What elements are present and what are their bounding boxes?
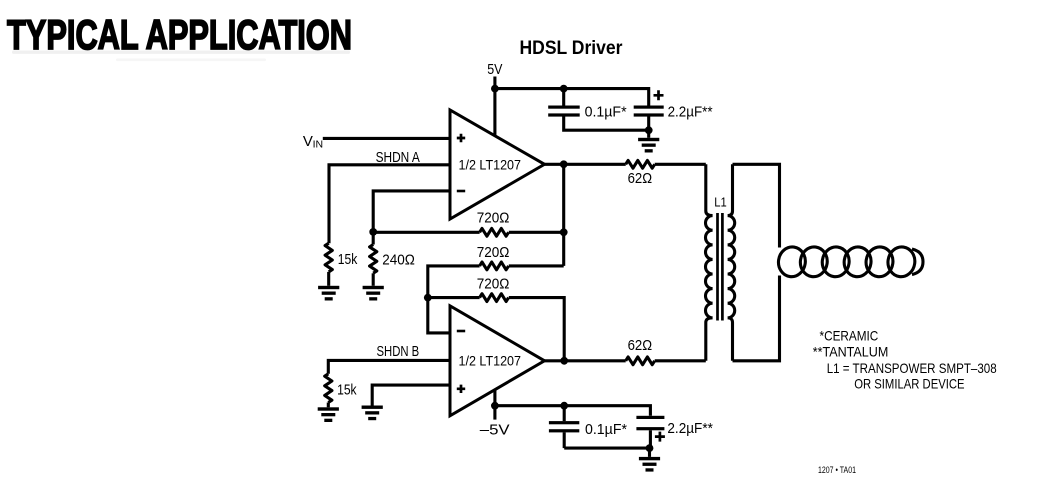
note L1 transpower [827, 360, 997, 376]
capacitor C4 2.2uF (bottom) [636, 416, 664, 448]
junction node 0.1uF top [560, 85, 568, 93]
faint print-through artifact under title [12, 51, 350, 62]
junction node bottom ground [646, 444, 654, 452]
svg-text:HDSL Driver: HDSL Driver [520, 37, 623, 59]
svg-text:0.1µF*: 0.1µF* [585, 104, 627, 121]
wire SHDN A [329, 165, 450, 243]
svg-text:V: V [303, 133, 313, 150]
polarity plus C2 [654, 90, 664, 100]
wire bottom cap rail [564, 447, 649, 450]
wire +5V rail [495, 89, 649, 106]
label SHDN A [376, 149, 420, 166]
wire U1 - input feedback [373, 191, 450, 232]
junction node U2 supply [491, 402, 499, 410]
label 0.1uF* (bottom) [585, 421, 627, 438]
svg-text:5V: 5V [487, 61, 502, 78]
svg-text:1/2 LT1207: 1/2 LT1207 [459, 354, 522, 370]
ground R2 [318, 286, 339, 301]
ground R3 [363, 286, 384, 301]
twisted pair loops [777, 245, 923, 278]
wire row1 right [509, 231, 564, 234]
resistor R1 62ohm (top) [626, 160, 655, 168]
svg-text:–5V: –5V [480, 422, 510, 439]
svg-text:1/2 LT1207: 1/2 LT1207 [459, 157, 522, 173]
label 15k (top) [338, 251, 358, 268]
wire row1 left [373, 231, 479, 234]
junction node row3 left [424, 294, 432, 302]
label 62ohm (top) [628, 170, 653, 187]
svg-text:240Ω: 240Ω [382, 251, 415, 268]
transformer L1 secondary winding [728, 164, 735, 360]
note ceramic [820, 328, 879, 344]
heading HDSL Driver [520, 37, 623, 59]
label SHDN B [377, 343, 420, 360]
capacitor C3 0.1uF (bottom) [549, 406, 579, 448]
label 720ohm row3 [477, 276, 510, 293]
ground top caps [638, 130, 659, 152]
svg-text:720Ω: 720Ω [477, 244, 510, 261]
junction node 0.1uF bottom [560, 402, 568, 410]
svg-text:2.2µF**: 2.2µF** [668, 104, 713, 121]
resistor R4 720ohm (row1) [480, 228, 509, 236]
resistor R6 720ohm (row3) [480, 294, 509, 302]
wire R1 to transformer primary top [655, 163, 706, 166]
transformer L1 core [718, 213, 723, 321]
svg-text:L1 = TRANSPOWER SMPT–308: L1 = TRANSPOWER SMPT–308 [827, 360, 997, 376]
label VIN [303, 133, 323, 151]
wire U1 output to R 62ohm [545, 163, 626, 166]
svg-text:**TANTALUM: **TANTALUM [813, 344, 889, 360]
capacitor C2 2.2uF (top) [634, 106, 664, 131]
wire SHDN B [328, 360, 450, 373]
label 240ohm [382, 251, 415, 268]
label 0.1uF* (top) [585, 104, 627, 121]
wire feedback vertical from U1 output [562, 164, 565, 266]
wire U2 output to R 62ohm [545, 359, 626, 362]
svg-text:1207 • TA01: 1207 • TA01 [818, 465, 856, 475]
title TYPICAL APPLICATION [7, 11, 352, 58]
op-amp U1 1/2 LT1207 (top) [450, 110, 545, 219]
svg-text:0.1µF*: 0.1µF* [585, 421, 627, 438]
transformer L1 primary winding [706, 164, 713, 360]
figure number 1207 TA01 [818, 465, 856, 475]
svg-text:*CERAMIC: *CERAMIC [820, 328, 879, 344]
svg-text:2.2µF**: 2.2µF** [667, 420, 713, 437]
ground R7 [318, 407, 339, 422]
label 720ohm row1 [477, 210, 510, 227]
op-amp U2 1/2 LT1207 (bottom) [450, 306, 545, 416]
capacitor C1 0.1uF (top) [548, 89, 649, 131]
junction node 5V rail [491, 85, 499, 93]
wire row3 node to U2 - input [428, 298, 450, 333]
label 62ohm (bottom) [628, 337, 653, 354]
label 2.2uF** (top) [668, 104, 713, 121]
junction node U1 output [560, 160, 568, 168]
transformer L1 label [714, 195, 727, 210]
polarity plus C4 [655, 432, 665, 442]
resistor R3 240ohm [370, 232, 377, 286]
ground U2 + input [362, 406, 383, 421]
svg-text:720Ω: 720Ω [477, 276, 510, 293]
junction node 240ohm [369, 228, 377, 236]
svg-text:L1: L1 [714, 195, 727, 210]
label 720ohm row2 [477, 244, 510, 261]
wire secondary top lead [733, 164, 780, 247]
junction node feedback row1 [560, 228, 568, 236]
note similar device [854, 375, 964, 391]
wire row3 right to U2 output [509, 298, 564, 361]
junction node U2 output [560, 357, 568, 365]
resistor R7 15k (bottom) [325, 374, 332, 408]
wire row3 left [428, 296, 480, 299]
svg-text:62Ω: 62Ω [628, 170, 653, 187]
resistor R5 720ohm (row2) [480, 262, 509, 270]
wire secondary bottom lead [733, 276, 780, 361]
svg-text:IN: IN [313, 139, 324, 151]
wire 5V stub to U1 supply pin [493, 77, 496, 141]
wire U2 + input to ground [372, 385, 450, 405]
svg-text:15k: 15k [337, 382, 357, 399]
svg-text:SHDN B: SHDN B [377, 343, 420, 360]
label 2.2uF** (bottom) [667, 420, 713, 437]
svg-text:720Ω: 720Ω [477, 210, 510, 227]
note tantalum [813, 344, 889, 360]
wire row2 [428, 266, 564, 298]
wire U2 supply stub [493, 385, 496, 420]
junction node cap ground (top) [645, 126, 653, 134]
label 15k (bottom) [337, 382, 357, 399]
wire VIN to U1 + input [323, 137, 450, 140]
resistor R8 62ohm (bottom) [626, 357, 655, 365]
ground bottom caps [639, 448, 660, 471]
label 5V [487, 61, 502, 78]
svg-text:62Ω: 62Ω [628, 337, 653, 354]
svg-text:15k: 15k [338, 251, 358, 268]
wire R8 to transformer primary bottom [655, 359, 706, 362]
resistor R2 15k (top) [325, 243, 332, 286]
svg-text:OR SIMILAR DEVICE: OR SIMILAR DEVICE [854, 375, 964, 391]
label -5V [480, 422, 510, 439]
wire -5V rail to caps [495, 406, 651, 416]
